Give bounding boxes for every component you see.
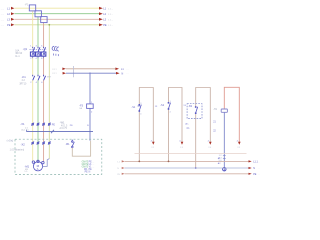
motor M1 <box>32 160 44 171</box>
branch 2 loop <box>169 88 183 162</box>
wire PE hook to motor <box>43 159 49 167</box>
contactor K1 contact gaps <box>32 76 45 80</box>
svg-text:.....: ..... <box>1 25 5 27</box>
svg-text:1 (Ortskasten): 1 (Ortskasten) <box>10 148 25 151</box>
bus L2 <box>1 12 114 16</box>
svg-text:1.1 ...: 1.1 ... <box>108 8 114 10</box>
svg-text:-M1: -M1 <box>25 164 30 168</box>
svg-text:N: N <box>253 167 255 170</box>
junction circle <box>223 168 226 171</box>
wire PE drop <box>48 25 50 159</box>
svg-text:-Q1: -Q1 <box>23 47 28 51</box>
switch S1 label <box>139 105 141 110</box>
bus L1.1 bottom <box>117 160 260 163</box>
svg-text:PE: PE <box>253 173 257 176</box>
cable W1 line <box>27 131 94 133</box>
relay contact K1 box <box>221 109 227 112</box>
svg-text:1.1 ...: 1.1 ... <box>108 14 114 16</box>
svg-text:-K1: -K1 <box>22 75 27 79</box>
svg-text:A=0.75: A=0.75 <box>60 127 68 130</box>
contact B1 <box>72 140 75 148</box>
breaker Q1 trip arcs <box>52 46 59 51</box>
node junction leg1 <box>138 161 140 163</box>
wire coil drop <box>223 112 225 171</box>
sensor B2 contact <box>195 107 197 114</box>
node junction leg3 <box>195 167 197 169</box>
svg-text:-F1: -F1 <box>25 2 29 6</box>
svg-text:-X1: -X1 <box>20 122 25 126</box>
svg-text:-B2: -B2 <box>188 105 192 108</box>
breaker Q1 contacts <box>33 47 46 52</box>
node PE tap <box>48 24 50 26</box>
wire L1 drop <box>32 11 34 162</box>
faint rail <box>135 153 247 155</box>
svg-text:-H1: -H1 <box>213 108 218 111</box>
bus PE bottom <box>117 173 260 176</box>
branch 3 loop <box>196 88 211 169</box>
cable conductor list <box>82 162 95 174</box>
breaker Q1 contact gaps <box>32 48 45 52</box>
cable W1 slash <box>51 130 54 133</box>
sensor B2 dashed box <box>187 104 202 119</box>
svg-text:1.1 ...: 1.1 ... <box>108 20 114 22</box>
svg-text:-W1: -W1 <box>60 122 65 125</box>
svg-text:1.1 ...: 1.1 ... <box>108 25 114 27</box>
fuse square pole 3 <box>41 17 47 23</box>
bus L3 <box>1 18 114 22</box>
svg-text:.....: ..... <box>1 20 5 22</box>
svg-text:PE: PE <box>103 23 107 27</box>
svg-text:-X2: -X2 <box>21 142 26 146</box>
bus PE <box>1 23 114 27</box>
svg-text:-F3: -F3 <box>79 104 83 107</box>
wire L2 drop <box>37 17 39 161</box>
fuse square pole 1 <box>29 5 35 11</box>
svg-text:.....: ..... <box>1 14 5 16</box>
switch S2 label <box>168 103 170 108</box>
switch S2 <box>168 102 170 109</box>
wire N drop <box>89 73 91 141</box>
svg-text:16A: 16A <box>15 50 20 53</box>
svg-text:3RT: 3RT <box>47 76 52 78</box>
node L1.1 feed row A <box>52 68 129 71</box>
svg-text:PE: PE <box>52 123 56 126</box>
breaker Q1 pin stubs <box>33 54 59 59</box>
terminal X1 clamps <box>31 123 50 126</box>
svg-text:(+Ort): (+Ort) <box>7 139 14 142</box>
svg-text:3RT10: 3RT10 <box>19 84 27 86</box>
node junction N tap <box>89 72 91 74</box>
bus N bottom <box>117 167 260 170</box>
branch 1 loop <box>139 88 153 162</box>
svg-text:PE: PE <box>7 23 11 27</box>
breaker Q1 thermal boxes <box>30 52 45 56</box>
svg-text:4G1.5: 4G1.5 <box>61 125 68 127</box>
svg-text:-B1: -B1 <box>66 143 71 146</box>
svg-text:PE: PE <box>85 172 89 174</box>
bus L1 <box>1 6 114 10</box>
wire L3 drop <box>43 22 45 162</box>
switch S1 <box>138 104 142 111</box>
branch 4 loop <box>224 87 239 142</box>
svg-text:-S1: -S1 <box>131 106 136 109</box>
svg-text:2.2 /: 2.2 / <box>52 69 57 71</box>
svg-text:A=1 1.5: A=1 1.5 <box>21 128 29 131</box>
svg-text:11-1: 11-1 <box>15 56 20 58</box>
enclosure dashed box <box>15 139 102 174</box>
svg-text:N: N <box>122 72 124 75</box>
node junction leg2 <box>168 161 170 163</box>
wire tan loop <box>72 141 90 157</box>
terminal X2 clamps <box>31 141 50 144</box>
fuse F3 body <box>87 104 94 109</box>
svg-text:2.2 /: 2.2 / <box>52 73 57 75</box>
svg-text:.....: ..... <box>1 9 5 11</box>
wire number stub <box>73 66 75 77</box>
fuse square pole 2 <box>35 11 41 17</box>
svg-text:-S2: -S2 <box>160 104 165 107</box>
contactor K1 contacts <box>33 75 46 81</box>
node N feed row B <box>52 72 129 75</box>
breaker Q1 linkage <box>30 49 47 51</box>
